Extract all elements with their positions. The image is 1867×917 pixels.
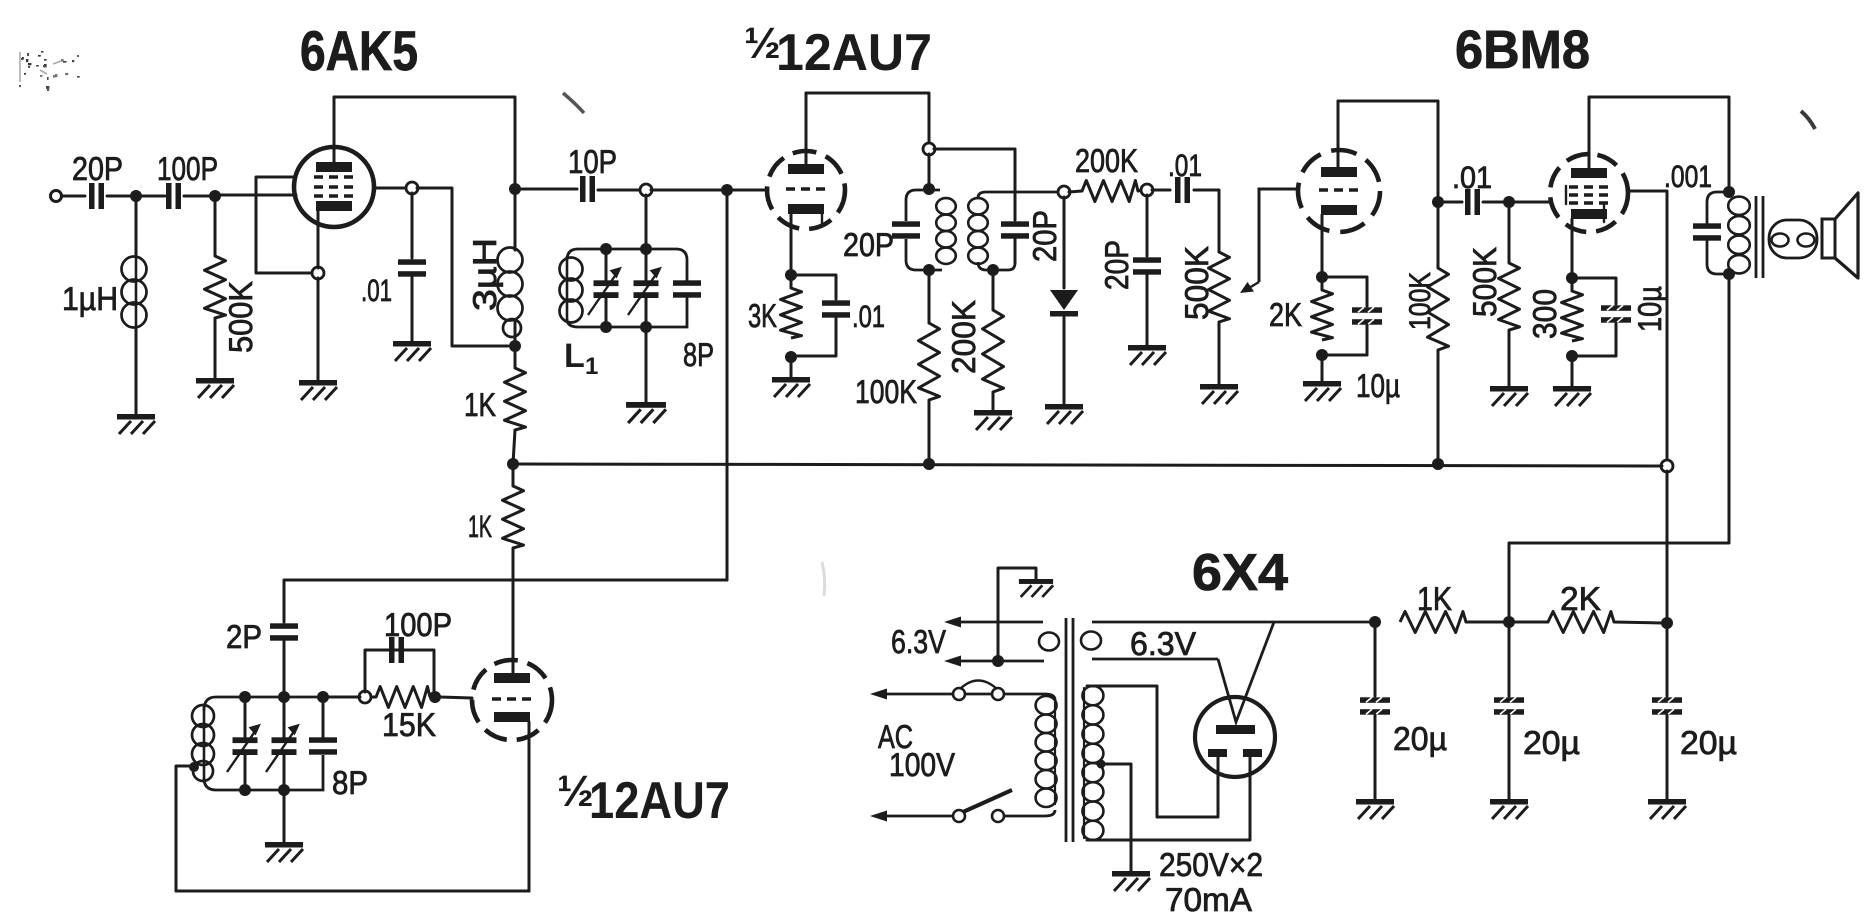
wire C19 to ground: [1508, 715, 1511, 799]
wire HV bottom to plate2: [1087, 757, 1250, 840]
node tank3 (junction dot): [600, 321, 612, 333]
wire C19 stub: [1508, 627, 1511, 696]
ground G4: [393, 341, 431, 361]
resistor R12 1K: [503, 486, 524, 548]
wire R6 to node R: [1138, 190, 1142, 191]
wire C20 stub: [1666, 628, 1669, 696]
node E (open junction): [406, 182, 418, 194]
capacitor C6 .01: [822, 300, 850, 317]
node AF1 (junction dot): [239, 784, 251, 796]
transformer T1 secondary frame: [978, 192, 1059, 270]
capacitor C18 20u: [1360, 697, 1390, 714]
wire V1 plate lead: [333, 97, 336, 162]
svg-text:6.3V: 6.3V: [891, 623, 946, 660]
scan smudge top-left (decorative ink noise kept for fidelity): [19, 51, 80, 91]
label C8 value 20P (vertical): [1026, 210, 1063, 262]
arrow pilot top: [944, 617, 961, 628]
label C18 value 20u: [1393, 720, 1447, 757]
wire vc3 stub top: [244, 697, 247, 738]
wire C13 branch bottom: [1577, 323, 1616, 356]
wire vc4 stub top: [283, 697, 286, 738]
node AC1 (junction dot): [429, 691, 441, 703]
svg-text:200K: 200K: [1075, 142, 1138, 179]
wire R7 to ground: [1218, 322, 1221, 384]
capacitor C16 8P: [309, 737, 337, 754]
wire node Q to D1: [1063, 197, 1066, 288]
wire V1 g3 tie: [256, 177, 313, 273]
svg-text:.01: .01: [852, 299, 885, 334]
label HV label 250Vx2: [1159, 846, 1263, 883]
wire node P to R5: [992, 270, 995, 310]
label C19 value 20u: [1523, 724, 1580, 761]
resistor R10 500K: [1499, 263, 1520, 330]
ground G11: [1303, 381, 1341, 401]
pentode V4 (6BM8 pentode): [1550, 154, 1628, 232]
label tube title 1/2 12AU7 (bottom): [557, 767, 730, 830]
svg-text:.01: .01: [1168, 148, 1202, 183]
wire node AD to tank: [328, 696, 360, 699]
inductor 1uH: [122, 257, 147, 329]
svg-text:3K: 3K: [748, 297, 777, 334]
resistor R7 500K pot: [1209, 252, 1230, 322]
wire node C to L2: [514, 194, 517, 250]
label C13 value 10u (vertical): [1631, 286, 1668, 332]
ground G15: [1019, 579, 1053, 597]
ground G18: [1490, 799, 1528, 819]
label C11 value 10u: [1356, 367, 1400, 404]
svg-text:.01: .01: [361, 273, 392, 308]
label R7 value 500K (vertical): [1178, 246, 1215, 320]
node Lnode (junction dot): [785, 269, 797, 281]
wire osc cathode rail: [176, 890, 529, 893]
node Wn (junction dot): [1503, 196, 1515, 208]
node T (junction dot): [1316, 271, 1328, 283]
svg-text:20µ: 20µ: [1393, 720, 1447, 757]
transformer T1 primary frame: [906, 190, 942, 270]
wire T3 primary axis: [1054, 698, 1056, 804]
wire tank top to vc2: [645, 249, 648, 281]
svg-text:20P: 20P: [1026, 210, 1063, 262]
wire V2 plate rail: [806, 93, 929, 144]
svg-text:10µ: 10µ: [1356, 367, 1400, 404]
ground G9: [1128, 345, 1166, 365]
wire node S stub: [1437, 202, 1440, 268]
tank bottom rail: [567, 297, 687, 327]
node M (junction dot): [785, 351, 797, 363]
svg-text:200K: 200K: [945, 300, 982, 374]
wire V1 screen lead: [374, 187, 407, 190]
wire screen line lower: [1666, 471, 1669, 617]
wire node J down: [928, 154, 931, 185]
wire node I to V2 grid: [732, 189, 768, 192]
label C9 value .01: [1168, 148, 1202, 183]
triode V2 (1/2 12AU7): [767, 151, 845, 229]
node AE3 (junction dot): [317, 691, 329, 703]
svg-text:12AU7: 12AU7: [589, 772, 730, 830]
scan mark centre faint: [822, 562, 825, 596]
svg-text:2K: 2K: [1560, 580, 1601, 617]
svg-text:100P: 100P: [157, 150, 218, 187]
label R11 value 300 (vertical): [1526, 289, 1563, 339]
wire node L stub: [790, 275, 793, 288]
variable capacitor VC2: [628, 268, 661, 316]
svg-text:250V×2: 250V×2: [1159, 846, 1263, 883]
label L value 1uH: [62, 280, 118, 317]
wire C17 to tank: [283, 641, 286, 692]
wire V3 plate lead: [1337, 101, 1340, 167]
wire node N to R4: [928, 270, 931, 323]
wire V4 plate rail: [1589, 97, 1729, 187]
node tank4 (junction dot): [640, 321, 652, 333]
primary bottom lead with switch SW1: [878, 790, 1055, 822]
wire tap lead: [176, 766, 193, 891]
wire V2 plate lead: [805, 93, 808, 164]
label C3 value .01: [361, 273, 392, 308]
arrow pilot bottom: [944, 656, 961, 667]
wire node Z to ground: [1571, 356, 1574, 386]
wire node D to ground: [317, 278, 320, 380]
wire R14 to node W2: [1466, 621, 1504, 624]
node H (open junction): [640, 184, 652, 196]
label C1 value 20P: [72, 150, 123, 187]
svg-text:500K: 500K: [1178, 246, 1215, 320]
transformer T3 core: [1066, 618, 1073, 842]
wire node W to R10: [1508, 207, 1511, 263]
node J (open junction): [923, 143, 935, 155]
wire V1 cathode lead: [317, 211, 320, 268]
capacitor C19 20u: [1494, 697, 1524, 714]
svg-text:1K: 1K: [468, 509, 492, 544]
inductor T1 secondary: [968, 198, 988, 264]
capacitor C12 .01: [1465, 189, 1480, 215]
wire node A to C2: [141, 195, 165, 198]
node G (junction dot): [507, 458, 519, 470]
wire rail to R12: [512, 464, 515, 486]
ground G14: [265, 842, 303, 862]
wire C3 to ground: [411, 277, 414, 341]
wire HV top to plate1: [1087, 686, 1218, 817]
wire tank top to vc1: [605, 249, 608, 281]
wire V4 cathode lead: [1571, 219, 1574, 273]
wire screen feed: [417, 188, 508, 346]
svg-text:.01: .01: [1452, 160, 1492, 195]
label pilot label 6.3V: [891, 623, 946, 660]
resistor R13 15K: [376, 687, 430, 708]
svg-text:100P: 100P: [384, 606, 452, 643]
label C12 value .01: [1452, 160, 1492, 195]
svg-text:6.3V: 6.3V: [1130, 625, 1196, 662]
wire vc1 to bottom: [605, 297, 608, 327]
osc tank bottom rail: [204, 755, 323, 790]
ground G10: [1200, 384, 1238, 404]
node R (open junction): [1141, 184, 1153, 196]
capacitor C9 .01: [1175, 177, 1190, 203]
label tube title 6X4: [1192, 544, 1288, 602]
wire L 1uH to ground: [135, 328, 138, 414]
node U (junction dot): [1316, 349, 1328, 361]
primary top lead with fuse F1: [878, 681, 1055, 701]
wire V3 cathode lead: [1321, 215, 1324, 272]
ground G19: [1648, 799, 1686, 819]
wire V5 grid lead: [440, 697, 472, 698]
label C14 value .001: [1664, 159, 1712, 194]
wire node Q to R6: [1069, 191, 1082, 192]
label tube title 1/2 12AU7 (top): [744, 19, 932, 82]
svg-text:3µH: 3µH: [466, 238, 503, 311]
wire R13 to node AD: [370, 696, 376, 699]
node O (junction dot): [923, 458, 935, 470]
wire node R to C10: [1146, 195, 1149, 256]
resistor R2 1K: [505, 368, 526, 430]
wire R2 to rail: [513, 430, 515, 464]
pentode V1 6AK5: [294, 147, 374, 227]
wire pilot centre tap: [998, 568, 1036, 661]
capacitor C2 100P: [166, 183, 181, 209]
arrow AC bottom: [870, 811, 887, 822]
label R13 value 15K: [382, 706, 436, 743]
svg-text:6AK5: 6AK5: [300, 19, 418, 82]
capacitor C14 .001: [1693, 223, 1721, 240]
label R15 value 2K: [1560, 580, 1601, 617]
wire node I long drop: [726, 195, 729, 580]
wire C4 to node H: [598, 189, 641, 192]
capacitor C5 8P: [673, 280, 701, 297]
ground G16: [1112, 871, 1150, 891]
capacitor C8 20P: [1001, 221, 1029, 238]
transformer T3 heater 6.3V winding: [1081, 622, 1374, 659]
triode V3 (6BM8 triode): [1298, 150, 1380, 232]
label mains label 100V: [889, 746, 955, 783]
transformer T2 primary frame: [1707, 192, 1729, 274]
node A (junction dot): [130, 190, 142, 202]
resistor R14 1K: [1400, 612, 1466, 633]
variable capacitor VC4: [266, 725, 299, 773]
wire C8 to sec bottom: [1014, 239, 1017, 263]
wire C12 to node W: [1483, 201, 1504, 204]
wire C6 branch bottom: [794, 318, 836, 356]
wire T2 bottom lead: [1509, 279, 1729, 617]
label C16 value 8P: [332, 764, 368, 801]
capacitor C20 20u: [1652, 697, 1682, 714]
wire D1 to ground: [1063, 317, 1066, 404]
label R3 value 3K: [748, 297, 777, 334]
svg-text:20P: 20P: [843, 226, 894, 263]
potentiometer wiper arrow: [1240, 189, 1297, 293]
wire V3 plate rail: [1338, 101, 1438, 197]
capacitor C7 20P: [892, 221, 920, 238]
inductor L3 osc coil: [192, 704, 214, 781]
wire C13 branch top: [1577, 278, 1616, 304]
svg-text:1: 1: [585, 353, 598, 380]
node tap (junction dot): [189, 762, 199, 772]
rectifier heater V-leads: [1218, 622, 1274, 722]
wire node U to ground: [1321, 355, 1324, 381]
svg-text:100K: 100K: [1404, 272, 1437, 330]
wire tank to ground: [645, 332, 648, 402]
svg-text:L: L: [564, 337, 585, 375]
label C2 value 100P: [157, 150, 218, 187]
wire vc2 to bottom: [645, 297, 648, 327]
label heater label 6.3V: [1130, 625, 1196, 662]
svg-text:10µ: 10µ: [1631, 286, 1668, 332]
node N (junction dot): [923, 264, 935, 276]
ground G1: [117, 414, 155, 434]
label C15 value 100P: [384, 606, 452, 643]
label C5 value 8P: [683, 336, 714, 373]
wire V5 cathode lead: [528, 722, 531, 891]
svg-text:70mA: 70mA: [1165, 881, 1252, 917]
wire R9 to rail: [1437, 350, 1440, 464]
svg-text:6BM8: 6BM8: [1455, 20, 1590, 80]
svg-text:.001: .001: [1664, 159, 1712, 194]
capacitor C11 10u: [1352, 307, 1382, 324]
wire vc3 stub bottom: [244, 755, 247, 790]
label C17 value 2P: [226, 618, 262, 655]
node V (junction dot): [1432, 458, 1444, 470]
wire C18 stub: [1374, 627, 1377, 696]
wire C10 to ground: [1146, 275, 1149, 345]
resistor R11 300: [1562, 291, 1583, 341]
wire osc injection line: [284, 580, 727, 622]
node AE1 (junction dot): [239, 691, 251, 703]
osc tank top rail: [204, 697, 323, 710]
variable capacitor VC3: [227, 725, 260, 773]
node AI (junction dot): [1503, 616, 1515, 628]
node AA (open junction): [1661, 460, 1673, 472]
inductor 3uH: [498, 248, 523, 338]
node AD (open junction): [359, 691, 371, 703]
transformer T2 core: [1756, 196, 1763, 278]
ground G13: [1553, 386, 1591, 406]
resistor R8 2K: [1312, 290, 1333, 340]
svg-text:20µ: 20µ: [1523, 724, 1580, 761]
capacitor C13 10u: [1601, 305, 1631, 322]
node F (junction dot): [509, 340, 521, 352]
wire R1 to ground: [214, 318, 217, 378]
wire node F stub: [514, 320, 517, 368]
label C7 value 20P: [843, 226, 894, 263]
wire R15 to node AJ: [1614, 622, 1662, 623]
label R10 value 500K (vertical): [1466, 247, 1503, 317]
wire HV centre tap: [1101, 764, 1131, 871]
speaker SP1 voice coil: [1769, 220, 1817, 258]
node tap2 (junction dot): [1097, 760, 1106, 769]
ground G2: [196, 378, 234, 398]
inductor L1 coil: [560, 256, 583, 323]
node Y (junction dot): [1566, 272, 1578, 284]
wire node A to L 1uH: [135, 201, 138, 256]
wire node E to C3: [411, 193, 414, 258]
label HV label 70mA: [1165, 881, 1252, 917]
wire tank ground stem: [283, 790, 286, 842]
wire C6 branch top: [796, 275, 836, 299]
svg-text:20P: 20P: [1098, 240, 1135, 290]
node Q (open junction): [1058, 186, 1070, 198]
node P (junction dot): [987, 264, 999, 276]
ground G6: [772, 377, 810, 397]
speaker SP1 cone: [1822, 193, 1858, 278]
wire node B to V1 grid: [220, 194, 296, 197]
svg-text:2K: 2K: [1269, 296, 1302, 333]
label R12 value 1K: [468, 509, 492, 544]
capacitor C17 2P: [270, 623, 298, 640]
svg-text:2P: 2P: [226, 618, 262, 655]
wire node M to ground: [790, 357, 793, 377]
transformer T3 pilot 6.3V winding: [957, 622, 1059, 661]
capacitor C3 .01: [398, 259, 426, 276]
capacitor C15 100P: [389, 637, 404, 663]
wire R12 to V5 plate: [512, 548, 515, 673]
svg-text:8P: 8P: [683, 336, 714, 373]
label C10 value 20P (vertical): [1098, 240, 1135, 290]
node tank2 (junction dot): [640, 243, 652, 255]
svg-text:100V: 100V: [889, 746, 955, 783]
wire V4 screen lead: [1628, 191, 1667, 461]
node S (junction dot): [1432, 196, 1444, 208]
wire R4 to rail: [928, 400, 931, 464]
label R5 value 200K (vertical): [945, 300, 982, 374]
svg-text:6X4: 6X4: [1192, 544, 1288, 602]
ground G7: [974, 410, 1012, 430]
wire node B to R1: [214, 201, 217, 256]
wire C2 to node B: [184, 195, 215, 198]
node D (open junction): [312, 267, 324, 279]
wire node H to node I: [651, 189, 722, 192]
label tube title 6BM8: [1455, 20, 1590, 80]
wire node C to C4: [520, 188, 577, 191]
node K (junction dot): [923, 183, 935, 195]
label R9 value 100K (vertical): [1404, 272, 1437, 330]
svg-text:500K: 500K: [1466, 247, 1503, 317]
wire C18 to ground: [1374, 715, 1377, 799]
svg-text:12AU7: 12AU7: [776, 24, 932, 82]
wire vc4 stub bottom: [283, 755, 286, 790]
label R2 value 1K: [464, 386, 496, 423]
label R8 value 2K: [1269, 296, 1302, 333]
wire node W to V4 grid: [1514, 201, 1551, 204]
tank top rail: [567, 249, 687, 281]
svg-text:300: 300: [1526, 289, 1563, 339]
label R1 value 500K (vertical): [222, 281, 259, 353]
wire V2 cathode tick: [821, 214, 823, 226]
wire C11 branch top: [1327, 277, 1367, 306]
label C4 value 10P: [568, 143, 617, 180]
wire node S to C12: [1443, 201, 1462, 204]
wire T3 HV axis: [1083, 688, 1085, 838]
svg-text:8P: 8P: [332, 764, 368, 801]
label R14 value 1K: [1417, 580, 1452, 617]
scan mark near 10P faint: [563, 93, 584, 113]
wire C15 bypass loop: [365, 650, 434, 692]
node I (junction dot): [721, 184, 733, 196]
diode D1: [1050, 290, 1078, 317]
resistor R1 500K: [205, 256, 226, 318]
svg-text:1µH: 1µH: [62, 280, 118, 317]
node tank1 (junction dot): [600, 243, 612, 255]
ground G8: [1045, 404, 1083, 424]
inductor T2 primary: [1728, 197, 1750, 274]
resistor R5 200K: [983, 310, 1004, 392]
wire node AI to R15: [1514, 621, 1548, 624]
scan mark top-right: [1801, 111, 1815, 129]
node AB (junction dot): [1723, 268, 1735, 280]
wire node Y stub: [1571, 278, 1574, 291]
resistor R6 200K: [1082, 181, 1138, 202]
wire V4 plate lead: [1588, 97, 1591, 168]
label mains label AC: [878, 718, 913, 755]
resistor R4 100K: [919, 323, 940, 400]
resistor R3 3K: [781, 288, 802, 338]
